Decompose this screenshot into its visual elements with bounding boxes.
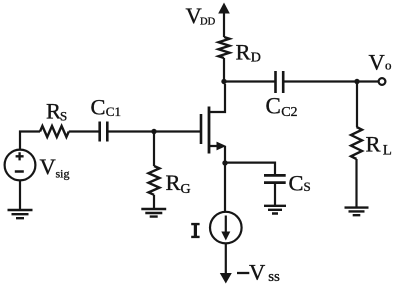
svg-text:C: C — [266, 94, 281, 119]
svg-text:V: V — [369, 49, 385, 74]
svg-text:V: V — [40, 154, 56, 179]
svg-text:V: V — [249, 260, 265, 285]
svg-text:C: C — [91, 95, 106, 120]
svg-text:R: R — [236, 40, 251, 65]
svg-text:S: S — [304, 179, 311, 194]
svg-text:C: C — [289, 171, 304, 196]
svg-text:R: R — [366, 132, 381, 157]
svg-text:o: o — [385, 58, 392, 73]
svg-text:ss: ss — [268, 269, 280, 285]
svg-text:DD: DD — [200, 17, 216, 28]
svg-text:C1: C1 — [106, 104, 121, 119]
svg-text:G: G — [181, 182, 191, 197]
svg-text:sig: sig — [56, 167, 70, 181]
svg-text:R: R — [166, 170, 181, 195]
svg-text:C2: C2 — [281, 105, 297, 120]
svg-text:S: S — [60, 109, 67, 124]
svg-text:R: R — [46, 99, 61, 124]
svg-text:L: L — [383, 143, 392, 159]
svg-text:D: D — [251, 51, 261, 66]
